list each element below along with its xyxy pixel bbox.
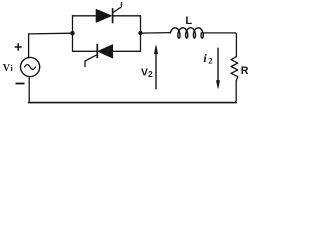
svg-text:Vi: Vi: [3, 63, 14, 74]
svg-text:i: i: [203, 51, 207, 65]
arrow V2 (up): [154, 45, 157, 89]
wire top-left: source top to left node: [29, 33, 73, 58]
wire bottom rail: [29, 102, 237, 104]
wire left rail bottom: source bottom to bottom rail: [28, 77, 30, 102]
svg-text:R: R: [241, 65, 249, 77]
svg-text:L: L: [185, 15, 192, 27]
wire resistor bottom lead: [234, 81, 236, 103]
inductor L coil: [170, 28, 203, 38]
minus sign: [16, 83, 25, 85]
wire bottom branch right segment: [113, 50, 141, 52]
source Vi (AC): [21, 57, 40, 76]
wire output top: right node to inductor: [141, 32, 171, 35]
thyristor bottom (anode right, pointing left): [85, 44, 113, 67]
thyristor top (anode left, pointing right): [96, 2, 121, 23]
arrow i2 (down): [216, 48, 219, 89]
svg-text:V2: V2: [141, 67, 153, 79]
wire inductor to top-right corner, down to resistor: [203, 33, 236, 57]
resistor R zigzag: [231, 56, 238, 81]
plus sign: [15, 43, 22, 50]
node left junction: [70, 31, 74, 35]
wire bottom branch left segment: [73, 50, 98, 52]
wire block left vertical: [72, 16, 74, 52]
wire top branch right segment: [113, 15, 141, 17]
node right junction: [138, 31, 142, 35]
wire block right vertical: [140, 16, 142, 52]
svg-text:2: 2: [208, 55, 212, 65]
wire top branch left segment: [73, 15, 97, 17]
